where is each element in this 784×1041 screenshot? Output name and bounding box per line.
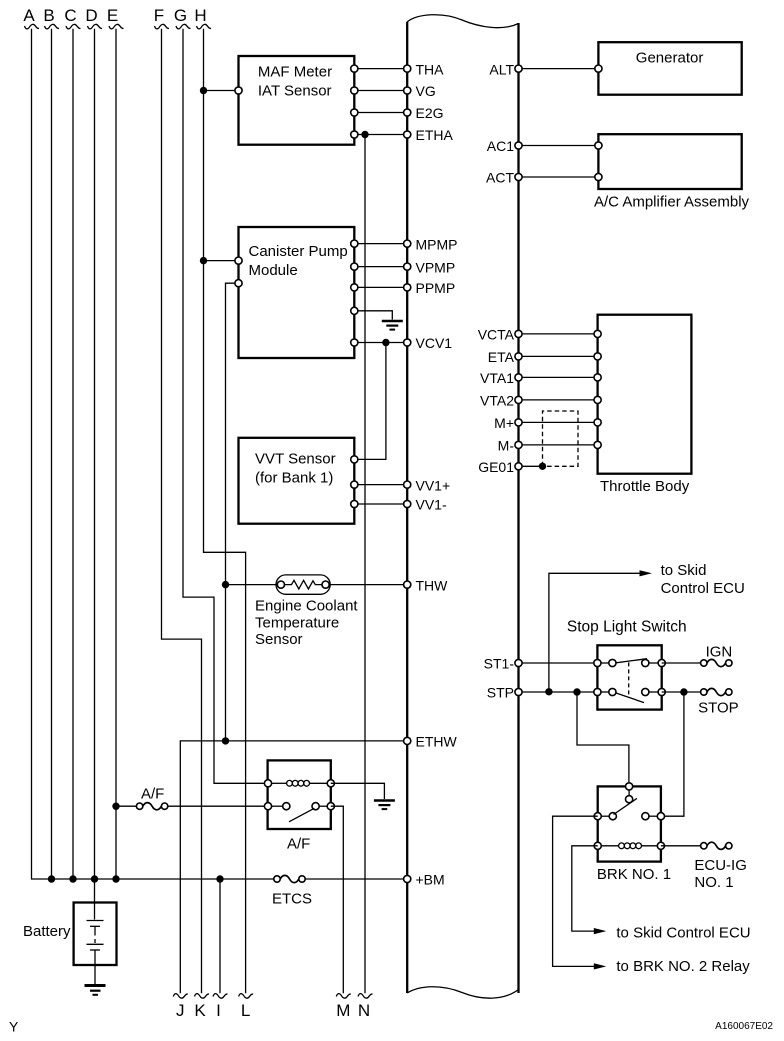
junction B-BM [48, 875, 55, 882]
wire THW left segment [226, 584, 278, 586]
ECM bus left edge [406, 22, 408, 993]
svg-text:E2G: E2G [416, 105, 444, 121]
connector F [154, 6, 169, 29]
label A/C Amplifier Assembly [594, 194, 750, 211]
node VTA2 [480, 393, 522, 409]
svg-text:G: G [174, 6, 187, 25]
wire THA [351, 65, 408, 72]
svg-text:VG: VG [416, 83, 436, 99]
wire BRK coil right to ECU-IG fuse [661, 845, 701, 847]
arrow to Skid Control ECU (top) [640, 570, 653, 576]
Throttle Body box [594, 315, 691, 474]
svg-text:A/F: A/F [141, 786, 164, 803]
BRK NO.1 switch [594, 790, 664, 820]
connector J [173, 994, 188, 1020]
svg-text:PPMP: PPMP [416, 280, 456, 296]
junction STP-skid [545, 688, 552, 695]
BRK NO. 1 box [598, 786, 661, 861]
junction ETHA-N [361, 131, 368, 138]
svg-text:I: I [216, 1001, 221, 1020]
connector N [358, 994, 373, 1020]
label STOP [698, 700, 739, 717]
svg-text:B: B [43, 6, 54, 25]
node M+ [494, 415, 522, 431]
node STP [487, 685, 522, 701]
wire BRK coil left to Skid Control ECU [572, 846, 599, 931]
svg-text:A/F: A/F [287, 836, 310, 853]
connector B [43, 6, 59, 29]
wire ETHW (bus to J) [180, 741, 407, 993]
node THW [404, 577, 449, 593]
Battery box [74, 903, 117, 966]
battery cells [87, 903, 104, 986]
connector I [213, 994, 228, 1020]
fuse ETCS [274, 875, 305, 882]
wire VVT feed (VCV1 branch) [354, 343, 386, 460]
wire ETA [519, 355, 598, 357]
wire G (jogs to A/F relay coil) [183, 29, 268, 784]
node ST1- [484, 656, 522, 672]
svg-text:M+: M+ [494, 415, 514, 431]
fuse STOP [701, 688, 732, 695]
junction VCV1-VVT [382, 339, 389, 346]
connector K [194, 994, 209, 1020]
svg-text:ECU-IG: ECU-IG [694, 857, 747, 874]
wire VV1- [351, 500, 408, 507]
BRK NO.1 coil [594, 842, 664, 849]
wire GE01 [519, 465, 543, 467]
A/F fuse label [141, 786, 164, 803]
junction D-BM [91, 875, 98, 882]
wire STP row [519, 691, 598, 693]
svg-text:ACT: ACT [486, 170, 514, 186]
junction E-AF fuse [112, 803, 119, 810]
wire VTA1 [519, 376, 598, 378]
ground (canister) [382, 321, 403, 330]
svg-text:to Skid: to Skid [661, 562, 707, 579]
label Throttle Body [600, 478, 690, 495]
node PPMP [404, 280, 456, 296]
svg-text:F: F [154, 6, 164, 25]
svg-text:ETHW: ETHW [416, 734, 458, 750]
stop light switch ST1 contacts [594, 659, 666, 667]
wire ALT to Generator [519, 68, 599, 70]
svg-text:THW: THW [416, 577, 449, 593]
svg-text:N: N [358, 1001, 370, 1020]
MAF Meter IAT Sensor box [239, 56, 355, 145]
node VV1- [404, 497, 447, 513]
wire STP right branch to BRK switch [661, 692, 684, 816]
label Stop Light Switch [567, 619, 687, 636]
svg-text:Canister Pump: Canister Pump [249, 243, 348, 260]
VVT Sensor box [239, 438, 355, 524]
wire M (relay switch to M) [331, 806, 344, 993]
junction C-BM [69, 875, 76, 882]
svg-text:STP: STP [487, 685, 514, 701]
svg-text:Control ECU: Control ECU [661, 580, 745, 597]
svg-text:+BM: +BM [416, 872, 445, 888]
VVT pin top [351, 456, 358, 463]
svg-text:Throttle Body: Throttle Body [600, 478, 690, 495]
svg-text:ETA: ETA [488, 349, 515, 365]
thermistor (Engine Coolant Temperature Sensor) [276, 575, 330, 594]
svg-text:to BRK NO. 2 Relay: to BRK NO. 2 Relay [616, 958, 750, 975]
wire E [115, 29, 117, 879]
label to BRK NO. 2 Relay [616, 958, 750, 975]
label to Skid Control ECU (top) [661, 562, 745, 597]
arrow to Skid Control ECU (bottom) [594, 928, 607, 934]
svg-text:M: M [336, 1001, 350, 1020]
wire I (from +BM) [219, 879, 221, 993]
wire STP to BRK NO.1 top [577, 692, 629, 786]
wire F (jogs to K) [162, 29, 202, 993]
svg-text:(for Bank 1): (for Bank 1) [255, 470, 333, 487]
ground (A/F relay) [374, 801, 395, 810]
fuse IGN [701, 659, 732, 666]
connector L [239, 994, 254, 1020]
wire VPMP [351, 263, 408, 270]
node ETHA [404, 127, 454, 143]
svg-text:Engine Coolant: Engine Coolant [255, 598, 358, 615]
wire B [51, 29, 53, 879]
svg-text:VCTA: VCTA [478, 327, 515, 343]
svg-text:VVT Sensor: VVT Sensor [255, 451, 336, 468]
svg-text:Stop Light Switch: Stop Light Switch [567, 619, 687, 636]
switch link (dashed) [628, 662, 630, 695]
svg-text:STOP: STOP [698, 700, 739, 717]
svg-text:Sensor: Sensor [255, 631, 303, 648]
ground (battery) [85, 986, 106, 995]
node ACT [486, 170, 522, 186]
svg-text:VCV1: VCV1 [416, 335, 453, 351]
svg-text:E: E [107, 6, 118, 25]
wire H (jogs to L) [204, 29, 246, 993]
connector D [85, 6, 102, 29]
svg-text:VTA2: VTA2 [480, 393, 514, 409]
node ALT [489, 61, 522, 77]
node ETHW [404, 734, 458, 750]
node VPMP [404, 259, 456, 275]
wire Canister ground feed [351, 307, 393, 319]
wire AC1 [519, 145, 599, 147]
svg-text:THA: THA [416, 61, 445, 77]
wire A/F coil to ground [331, 783, 385, 799]
Generator box [595, 42, 742, 94]
svg-text:K: K [194, 1001, 206, 1020]
label Engine Coolant Temperature Sensor [255, 598, 358, 648]
svg-text:GE01: GE01 [478, 459, 514, 475]
svg-text:C: C [64, 6, 76, 25]
fuse A/F [136, 803, 167, 810]
wire ST1 to IGN fuse [662, 662, 701, 664]
wire BRK switch left to BRK NO.2 relay [553, 816, 599, 966]
A/F relay switch [264, 803, 334, 822]
connector A [23, 6, 39, 29]
svg-text:IGN: IGN [706, 644, 733, 661]
stop light switch STP contacts [594, 688, 666, 702]
svg-text:Module: Module [249, 262, 298, 279]
svg-text:IAT Sensor: IAT Sensor [258, 83, 332, 100]
junction STP-right branch [680, 688, 687, 695]
wire THW right segment [329, 584, 407, 586]
wire PPMP [351, 284, 408, 291]
node ETA [488, 349, 522, 365]
node M- [498, 438, 522, 454]
junction ETHW-canister wire [222, 737, 229, 744]
connector G [174, 6, 191, 29]
ECM bus right edge [517, 23, 519, 993]
junction GE01-shield [539, 463, 546, 470]
node THA [404, 61, 445, 77]
label ECU-IG NO. 1 [694, 857, 747, 891]
wire A/F fuse row (E to relay) [116, 805, 268, 807]
ECM bus bottom wavy edge [407, 987, 518, 998]
wire D [94, 29, 96, 903]
junction STP-BRK branch [573, 688, 580, 695]
node E2G [404, 105, 444, 121]
ECM bus top wavy edge [407, 15, 518, 28]
BRK NO.1 top pin [626, 783, 633, 790]
label to Skid Control ECU (bottom) [616, 924, 750, 941]
svg-text:ETCS: ETCS [272, 891, 312, 908]
svg-text:VV1+: VV1+ [416, 477, 451, 493]
svg-text:M-: M- [498, 438, 515, 454]
junction H-Canister [200, 257, 207, 264]
junction THW [222, 581, 229, 588]
wire MAF left pin to H [204, 87, 243, 94]
svg-text:H: H [194, 6, 206, 25]
wire STP right to STOP fuse [662, 691, 701, 693]
wire M- [519, 444, 598, 446]
svg-text:AC1: AC1 [487, 138, 514, 154]
wire VG [351, 87, 408, 94]
connector M [336, 994, 351, 1020]
wire VCTA [519, 333, 598, 335]
wire to Skid Control ECU (top) [549, 573, 645, 692]
svg-text:L: L [241, 1001, 250, 1020]
svg-text:Generator: Generator [636, 50, 704, 67]
svg-text:MPMP: MPMP [416, 236, 458, 252]
junction H-MAF [200, 87, 207, 94]
svg-text:A: A [23, 6, 35, 25]
node AC1 [487, 138, 522, 154]
wire ETHA [351, 131, 408, 138]
svg-text:VPMP: VPMP [416, 259, 456, 275]
svg-text:ETHA: ETHA [416, 127, 454, 143]
connector C [64, 6, 80, 29]
label Battery [23, 923, 71, 940]
fuse ECU-IG NO. 1 [701, 842, 732, 849]
wire MPMP [351, 240, 408, 247]
svg-text:A/C Amplifier Assembly: A/C Amplifier Assembly [594, 194, 750, 211]
node VTA1 [480, 370, 522, 386]
svg-text:J: J [176, 1001, 185, 1020]
wire E2G [351, 109, 408, 116]
wire ACT [519, 176, 599, 178]
node VV1+ [404, 477, 451, 493]
drawing number [715, 1021, 773, 1032]
svg-text:VTA1: VTA1 [480, 370, 514, 386]
node MPMP [404, 236, 458, 252]
svg-text:BRK NO. 1: BRK NO. 1 [597, 866, 671, 883]
A/C Amplifier Assembly box [595, 134, 742, 189]
node GE01 [478, 459, 522, 475]
arrow to BRK NO. 2 Relay [594, 963, 607, 969]
page id Y [9, 1019, 19, 1035]
svg-text:NO. 1: NO. 1 [694, 874, 733, 891]
A/F relay box [268, 760, 331, 829]
junction E-BM [112, 875, 119, 882]
svg-text:ALT: ALT [489, 61, 514, 77]
wire VTA2 [519, 399, 598, 401]
label ETCS [272, 891, 312, 908]
svg-text:to Skid Control ECU: to Skid Control ECU [616, 924, 750, 941]
svg-text:ST1-: ST1- [484, 656, 515, 672]
label BRK NO. 1 [597, 866, 671, 883]
wire VCV1 [351, 339, 408, 346]
node VG [404, 83, 436, 99]
A/F relay coil [264, 780, 334, 787]
label IGN [706, 644, 733, 661]
junction I-BM [216, 875, 223, 882]
wire N (ETHA down to N) [364, 135, 366, 994]
svg-text:VV1-: VV1- [416, 497, 447, 513]
svg-text:A160067E02: A160067E02 [715, 1021, 773, 1032]
connector H [194, 6, 211, 29]
wire +BM row to bus [404, 872, 445, 888]
wire C [72, 29, 74, 879]
Stop Light Switch box [597, 645, 661, 709]
svg-text:MAF Meter: MAF Meter [258, 63, 332, 80]
svg-text:Y: Y [9, 1019, 19, 1035]
connector E [107, 6, 124, 29]
svg-text:Battery: Battery [23, 923, 71, 940]
wire Canister pin1 to H [204, 257, 243, 264]
svg-text:D: D [85, 6, 97, 25]
label A/F relay [287, 836, 310, 853]
Canister Pump Module box [239, 227, 355, 358]
svg-text:Temperature: Temperature [255, 614, 339, 631]
wire M+ [519, 421, 598, 423]
shield (dashed) around M+/M- [543, 411, 579, 466]
wire VV1+ [351, 481, 408, 488]
wire Canister pin2 (to THW/ETHW net) [226, 280, 243, 741]
wire A (+BM rail) [32, 29, 408, 879]
wire ST1- row [519, 662, 598, 664]
node VCV1 [404, 335, 453, 351]
node VCTA [478, 327, 522, 343]
